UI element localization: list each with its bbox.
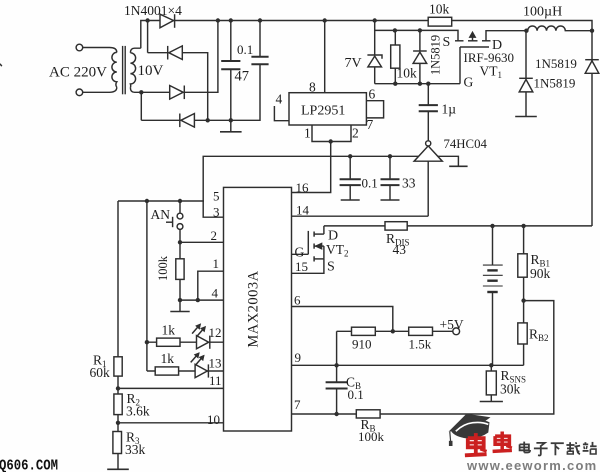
svg-text:1: 1 [213, 256, 220, 271]
svg-text:8: 8 [309, 80, 316, 95]
svg-text:1k: 1k [161, 351, 175, 366]
svg-text:6: 6 [369, 87, 376, 102]
svg-text:33: 33 [402, 176, 416, 191]
svg-text:11: 11 [209, 373, 222, 388]
svg-text:13: 13 [209, 356, 222, 371]
svg-text:2: 2 [211, 228, 218, 243]
svg-text:100µH: 100µH [523, 5, 562, 20]
svg-text:S: S [443, 35, 451, 50]
svg-text:100k: 100k [358, 429, 385, 444]
svg-text:14: 14 [296, 203, 310, 218]
svg-text:G: G [464, 74, 474, 89]
svg-text:Q606.COM: Q606.COM [0, 459, 58, 472]
svg-text:10V: 10V [138, 63, 164, 79]
svg-text:4: 4 [276, 92, 283, 107]
svg-text:100k: 100k [156, 255, 170, 281]
svg-text:0.1: 0.1 [348, 387, 364, 402]
svg-text:6: 6 [294, 293, 301, 308]
svg-text:1N5819: 1N5819 [534, 76, 576, 91]
svg-text:60k: 60k [90, 365, 111, 380]
svg-text:4: 4 [212, 286, 219, 301]
svg-text:5: 5 [213, 189, 220, 204]
svg-text:1k: 1k [162, 323, 176, 338]
svg-text:1.5k: 1.5k [409, 337, 432, 352]
svg-text:+5V: +5V [440, 317, 464, 332]
svg-text:2: 2 [352, 126, 359, 141]
svg-text:10k: 10k [397, 66, 418, 81]
svg-text:3.6k: 3.6k [126, 404, 150, 419]
svg-text:15: 15 [295, 259, 308, 274]
svg-text:47: 47 [235, 69, 250, 85]
svg-text:7: 7 [367, 117, 374, 132]
svg-text:1N4001×4: 1N4001×4 [124, 3, 182, 18]
svg-text:12: 12 [209, 325, 222, 340]
svg-text:www.eeworm.com: www.eeworm.com [466, 458, 597, 472]
svg-text:0.1: 0.1 [362, 176, 378, 191]
svg-text:16: 16 [296, 180, 310, 195]
svg-text:7: 7 [294, 397, 301, 412]
svg-text:LP2951: LP2951 [301, 104, 345, 119]
svg-text:S: S [327, 260, 335, 275]
svg-text:10: 10 [207, 412, 220, 427]
svg-text:G: G [295, 245, 305, 260]
svg-text:43: 43 [393, 242, 407, 257]
svg-text:74HC04: 74HC04 [444, 137, 488, 151]
svg-text:1µ: 1µ [442, 102, 457, 117]
svg-text:AC 220V: AC 220V [49, 65, 107, 81]
svg-text:1N5819: 1N5819 [429, 35, 443, 75]
svg-text:30k: 30k [500, 382, 521, 397]
svg-text:10k: 10k [429, 2, 450, 17]
svg-text:910: 910 [352, 337, 372, 352]
svg-text:MAX2003A: MAX2003A [246, 270, 262, 347]
svg-text:33k: 33k [125, 442, 146, 457]
svg-text:90k: 90k [530, 266, 551, 281]
svg-text:1: 1 [304, 126, 311, 141]
svg-text:7V: 7V [345, 56, 362, 71]
svg-text:0.1: 0.1 [237, 42, 253, 57]
svg-text:1N5819: 1N5819 [535, 56, 577, 71]
svg-text:3: 3 [213, 205, 220, 220]
svg-text:9: 9 [295, 350, 302, 365]
svg-text:AN: AN [151, 207, 171, 222]
